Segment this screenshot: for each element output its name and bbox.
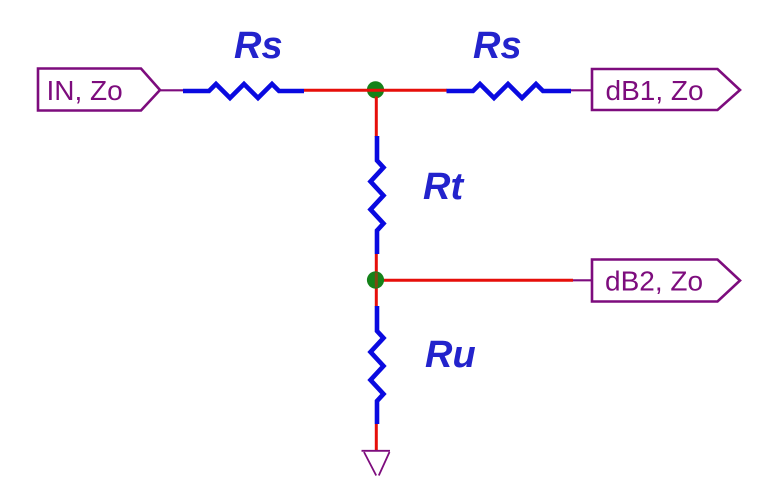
svg-text:Rt: Rt	[423, 166, 464, 208]
svg-text:dB1, Zo: dB1, Zo	[606, 75, 704, 106]
wire: Rs left to node A and on to Rs right (red)	[304, 89, 447, 92]
node B junction dot	[367, 271, 384, 288]
wire: dB2 port lead (purple)	[573, 279, 592, 281]
resistor Rs (left)	[183, 84, 304, 98]
wire: Rt to node B (red)	[375, 254, 378, 275]
wire: node B to dB2 port (red)	[376, 279, 574, 282]
wire: vertical run seen through node B dot	[375, 273, 378, 288]
ground	[362, 451, 391, 476]
svg-text:Rs: Rs	[234, 25, 283, 67]
wire: Ru to ground (red)	[375, 424, 378, 450]
svg-text:dB2, Zo: dB2, Zo	[605, 266, 703, 297]
wire: Rs right to dB1 port lead (purple)	[571, 89, 592, 91]
port dB2, Zo	[592, 260, 740, 302]
wire: IN port lead (purple)	[160, 89, 184, 91]
resistor Rs (right)	[447, 84, 572, 98]
port dB1, Zo	[592, 69, 740, 110]
port IN, Zo	[38, 69, 160, 111]
svg-text:IN, Zo: IN, Zo	[47, 75, 123, 106]
resistor Ru	[371, 306, 384, 424]
resistor Rt	[371, 136, 384, 254]
wire: node B down toward Ru (red)	[375, 286, 378, 307]
svg-text:Rs: Rs	[473, 25, 522, 67]
wire: node A down to Rt (red)	[375, 97, 378, 138]
node A junction dot	[367, 81, 384, 98]
svg-text:Ru: Ru	[425, 334, 476, 376]
